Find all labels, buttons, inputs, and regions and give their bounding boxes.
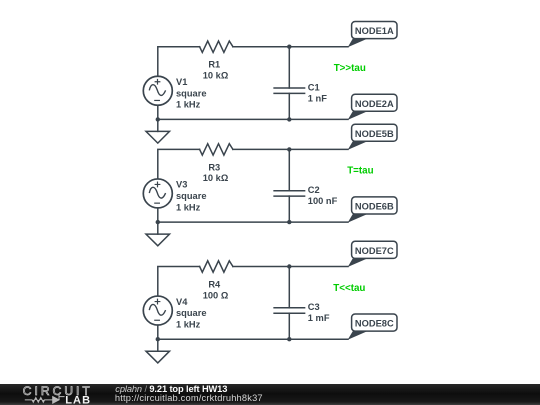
svg-text:T=tau: T=tau bbox=[347, 166, 373, 177]
junction: C2 top on rail bbox=[287, 147, 291, 151]
svg-text:NODE7C: NODE7C bbox=[355, 246, 394, 256]
wire: C2 top lead bbox=[288, 149, 290, 190]
wire: C3 bottom lead bbox=[288, 313, 290, 339]
wire: C1 bottom lead bbox=[288, 93, 290, 119]
junction: C1 top on rail bbox=[287, 45, 291, 49]
svg-text:square: square bbox=[176, 88, 207, 98]
svg-text:1 mF: 1 mF bbox=[308, 313, 330, 323]
resistor R3 bbox=[200, 144, 233, 155]
wire: V3 top to rail corner bbox=[158, 149, 200, 179]
ground symbol bbox=[146, 222, 170, 246]
node flag NODE2A bbox=[348, 94, 397, 120]
svg-text:NODE5B: NODE5B bbox=[355, 129, 394, 139]
wire: bottom rail bbox=[158, 118, 348, 120]
voltage source V3 (square 1 kHz) bbox=[143, 179, 172, 208]
wire: V1 top to rail corner bbox=[158, 47, 200, 77]
wire: V4 bottom lead bbox=[157, 325, 159, 339]
svg-text:NODE6B: NODE6B bbox=[355, 202, 394, 212]
wire: top rail from R1 to flag anchor bbox=[233, 46, 348, 48]
junction: V3 bottom on rail bbox=[156, 220, 160, 224]
capacitor C3 bbox=[274, 308, 305, 313]
voltage source V1 (square 1 kHz) bbox=[143, 76, 172, 105]
svg-text:10 kΩ: 10 kΩ bbox=[203, 71, 229, 81]
svg-text:V3: V3 bbox=[176, 180, 187, 190]
svg-text:square: square bbox=[176, 191, 207, 201]
footer bar bbox=[0, 384, 540, 405]
svg-text:T>>tau: T>>tau bbox=[334, 63, 366, 74]
wire: top rail from R3 to flag anchor bbox=[233, 148, 348, 150]
junction: C3 bottom on rail bbox=[287, 337, 291, 341]
ground symbol bbox=[146, 119, 170, 143]
wire: C3 top lead bbox=[288, 267, 290, 308]
ground symbol bbox=[146, 339, 170, 363]
svg-text:1 nF: 1 nF bbox=[308, 93, 327, 103]
node flag NODE1A bbox=[348, 22, 397, 48]
wire: C2 bottom lead bbox=[288, 196, 290, 222]
svg-text:NODE2A: NODE2A bbox=[355, 99, 394, 109]
svg-text:R4: R4 bbox=[208, 279, 221, 289]
svg-text:10 kΩ: 10 kΩ bbox=[203, 173, 229, 183]
svg-text:1 kHz: 1 kHz bbox=[176, 202, 201, 212]
wire: V1 bottom lead bbox=[157, 105, 159, 119]
node flag NODE7C bbox=[348, 241, 397, 267]
svg-text:NODE1A: NODE1A bbox=[355, 26, 394, 36]
svg-text:http://circuitlab.com/crktdruh: http://circuitlab.com/crktdruhh8k37 bbox=[115, 393, 263, 403]
svg-text:C2: C2 bbox=[308, 185, 320, 195]
svg-text:C3: C3 bbox=[308, 302, 320, 312]
svg-text:V1: V1 bbox=[176, 77, 187, 87]
capacitor C2 bbox=[274, 191, 305, 196]
svg-text:100 Ω: 100 Ω bbox=[203, 290, 229, 300]
junction: V1 bottom on rail bbox=[156, 117, 160, 121]
svg-text:T<<tau: T<<tau bbox=[333, 283, 365, 294]
svg-text:100 nF: 100 nF bbox=[308, 196, 338, 206]
wire: top rail from R4 to flag anchor bbox=[233, 266, 348, 268]
svg-text:R3: R3 bbox=[208, 162, 220, 172]
svg-text:square: square bbox=[176, 308, 207, 318]
resistor R4 bbox=[200, 261, 233, 272]
node flag NODE6B bbox=[348, 197, 397, 223]
svg-text:LAB: LAB bbox=[65, 394, 91, 405]
svg-text:V4: V4 bbox=[176, 297, 188, 307]
svg-text:1 kHz: 1 kHz bbox=[176, 319, 201, 329]
junction: C1 bottom on rail bbox=[287, 117, 291, 121]
svg-text:C1: C1 bbox=[308, 82, 320, 92]
junction: C2 bottom on rail bbox=[287, 220, 291, 224]
capacitor C1 bbox=[274, 88, 305, 93]
junction: C3 top on rail bbox=[287, 264, 291, 268]
svg-text:R1: R1 bbox=[208, 60, 220, 70]
CircuitLab logo: resistor-diode glyph bbox=[25, 393, 65, 403]
resistor R1 bbox=[200, 41, 233, 52]
node flag NODE8C bbox=[348, 314, 397, 340]
wire: V3 bottom lead bbox=[157, 208, 159, 222]
wire: bottom rail bbox=[158, 338, 348, 340]
voltage source V4 (square 1 kHz) bbox=[143, 296, 172, 325]
wire: bottom rail bbox=[158, 221, 348, 223]
svg-text:NODE8C: NODE8C bbox=[355, 319, 394, 329]
wire: C1 top lead bbox=[288, 47, 290, 88]
svg-text:1 kHz: 1 kHz bbox=[176, 100, 201, 110]
wire: V4 top to rail corner bbox=[158, 267, 200, 297]
node flag NODE5B bbox=[348, 124, 397, 150]
junction: V4 bottom on rail bbox=[156, 337, 160, 341]
